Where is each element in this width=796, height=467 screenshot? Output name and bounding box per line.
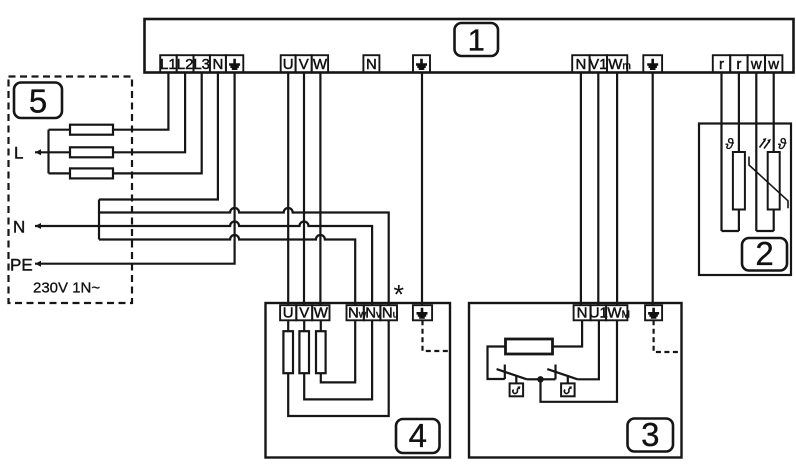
terminal ground (pump): [643, 55, 662, 72]
svg-text:L1: L1: [160, 56, 177, 73]
thermal actuator T2: [561, 375, 575, 396]
svg-text:2: 2: [755, 235, 773, 272]
wire capacitor to switch feed: [488, 347, 506, 380]
wire V: [303, 73, 305, 306]
svg-text:N: N: [212, 56, 223, 73]
wire motor ground (dashed): [654, 320, 682, 352]
wire N terminal feed: [99, 73, 218, 200]
wire bus to fuse F1: [49, 129, 71, 131]
wire N line bottom (to Nw): [99, 235, 355, 305]
sensor box 2: [699, 124, 791, 276]
label 2: [742, 235, 787, 272]
terminal WM (motor): [606, 305, 630, 322]
wire bus to fuse F3: [49, 172, 71, 174]
terminal N (motor): [574, 305, 591, 322]
svg-text:ϑ: ϑ: [725, 136, 734, 153]
wire U: [287, 73, 289, 306]
svg-text:L3: L3: [193, 56, 210, 73]
svg-text:N: N: [366, 56, 377, 73]
svg-text:Nv: Nv: [365, 305, 381, 322]
terminal W (heater): [312, 305, 329, 322]
svg-text:r: r: [736, 56, 741, 73]
terminal N (mains): [210, 55, 226, 73]
svg-text:U1: U1: [589, 305, 608, 322]
controller box U1 (unit 1): [145, 19, 794, 73]
wire N to capacitor: [553, 320, 583, 346]
svg-text:r: r: [719, 56, 724, 73]
svg-text:N: N: [13, 218, 25, 237]
wire w2 to sensor box: [773, 73, 775, 153]
terminal ground (heater): [413, 55, 430, 72]
wire PE to ground terminal: [35, 73, 235, 264]
svg-text:*: *: [394, 280, 405, 310]
wire r1 to sensor box: [720, 73, 722, 232]
wire W: [319, 73, 321, 306]
terminal L1: [160, 55, 177, 73]
svg-text:U: U: [283, 305, 294, 322]
temperature sensor B1: [725, 136, 745, 210]
wire sensor B1 loop: [722, 210, 739, 232]
svg-text:L: L: [14, 144, 23, 163]
wire N line middle (to Nv): [35, 222, 372, 306]
svg-text:230V 1N~: 230V 1N~: [33, 280, 100, 297]
wire N bus vertical: [98, 200, 100, 240]
wire V1 to motor box: [597, 73, 599, 306]
node PE feed dot: [35, 261, 41, 267]
terminal w (sensor 3): [748, 55, 765, 73]
wire N to motor box: [580, 73, 582, 306]
svg-text:V: V: [299, 305, 309, 322]
svg-text:N: N: [577, 305, 588, 322]
wire L to fuse F2: [35, 151, 70, 153]
terminal W: [312, 55, 328, 73]
fuse F3: [70, 168, 113, 178]
wire sensor B2 loop: [756, 210, 773, 232]
svg-text:5: 5: [29, 83, 47, 120]
node A (switch junction): [537, 376, 543, 382]
capacitor C1 (motor run): [506, 339, 553, 354]
terminal U1 (motor): [589, 305, 608, 322]
terminal ground (heater box): [413, 305, 432, 320]
wire ground to motor box: [652, 73, 654, 306]
svg-text:L2: L2: [177, 56, 194, 73]
heating element R-W: [316, 320, 326, 373]
svg-text:4: 4: [409, 417, 427, 454]
heater box 4: [266, 303, 451, 458]
motor box 3: [469, 303, 682, 458]
thermal contact S2: [541, 320, 599, 379]
svg-text:w: w: [750, 56, 762, 73]
heating element R-U: [283, 320, 293, 373]
terminal V (heater): [296, 305, 312, 322]
terminal w (sensor 4): [765, 55, 782, 73]
terminal L2: [177, 55, 194, 73]
supply box 5 (dashed mains cabinet): [9, 77, 133, 304]
svg-text:w: w: [767, 56, 779, 73]
svg-text:3: 3: [641, 416, 659, 453]
terminal V: [296, 55, 312, 73]
svg-text:U: U: [283, 56, 294, 73]
wire ground to heater box: [421, 73, 423, 306]
svg-text:1: 1: [468, 23, 485, 58]
label 1: [455, 23, 499, 58]
terminal ground (motor box): [645, 305, 662, 320]
label 3: [628, 416, 674, 453]
temperature sensor B2 (NTC): [749, 136, 788, 210]
wire element W to Nw: [321, 320, 355, 382]
wire node to WM: [541, 320, 618, 402]
wire Wm to motor box: [616, 73, 618, 306]
terminal U (heater): [280, 305, 296, 322]
wire w1 to sensor box: [755, 73, 757, 232]
node L feed dot: [35, 149, 41, 155]
wire fuse bus vertical: [47, 130, 49, 174]
terminal U: [281, 55, 296, 73]
svg-text:V: V: [299, 56, 309, 73]
fuse F2: [70, 147, 113, 157]
terminal N (pump group): [572, 55, 589, 73]
svg-text:W: W: [313, 56, 328, 73]
terminal Nv: [364, 305, 381, 322]
fuse F1: [70, 125, 113, 135]
terminal N (unused centre): [363, 55, 379, 73]
svg-text:PE: PE: [10, 255, 33, 274]
terminal PE ground (left): [226, 55, 243, 72]
wire N line top (to Nu): [99, 208, 389, 305]
terminal Nw: [347, 305, 367, 322]
wire element U to Nu: [288, 320, 389, 416]
terminal r (sensor 2): [730, 55, 747, 73]
wire element V to Nv: [304, 320, 372, 399]
label 5: [14, 83, 62, 120]
svg-text:N: N: [575, 56, 586, 73]
thermal contact S1: [497, 365, 541, 380]
terminal V1: [589, 55, 607, 73]
svg-text:ϑ: ϑ: [778, 136, 787, 153]
terminal L3: [193, 55, 210, 73]
wire fuse F1 to terminal L1: [113, 73, 168, 130]
svg-text:V1: V1: [589, 56, 607, 73]
wire r2 to sensor box: [738, 73, 740, 153]
wire fuse F2 to terminal L2: [113, 73, 185, 153]
terminal r (sensor 1): [713, 55, 730, 73]
terminal Wm: [607, 55, 631, 73]
thermal actuator T1: [510, 375, 523, 396]
terminal Nu: [380, 305, 398, 322]
wire fuse F3 to terminal L3: [113, 73, 202, 174]
node N feed dot: [35, 223, 41, 229]
wire heater ground (dashed): [423, 320, 451, 351]
svg-text:W: W: [314, 305, 329, 322]
heating element R-V: [299, 320, 309, 373]
label 4: [396, 417, 440, 454]
